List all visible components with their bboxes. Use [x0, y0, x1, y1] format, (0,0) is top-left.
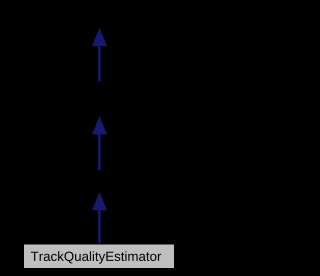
wire arrow1 (top inheritance arrow): [93, 29, 107, 81]
wire arrow2 (middle inheritance arrow): [93, 117, 107, 170]
node TrackQualityEstimator (class box): [24, 244, 175, 269]
wire arrow3 (bottom inheritance arrow): [93, 193, 107, 243]
